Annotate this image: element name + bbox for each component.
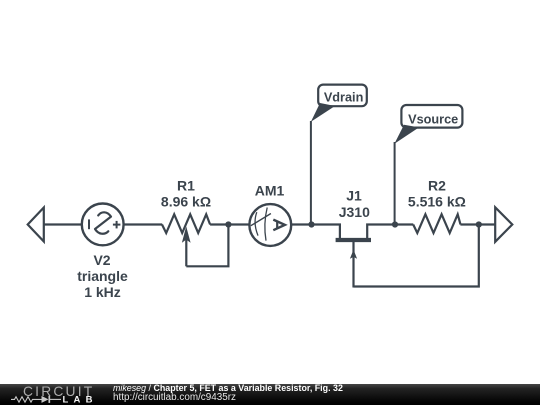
svg-text:V2: V2	[93, 252, 110, 268]
svg-text:AM1: AM1	[255, 183, 285, 199]
ammeter AM1	[249, 204, 291, 246]
flag Vsource	[394, 105, 462, 144]
wire Vdrain flag lead	[310, 121, 312, 225]
wire R2 to node	[460, 223, 495, 225]
svg-text:triangle: triangle	[77, 268, 128, 284]
wire Vsource node to R2	[395, 223, 413, 225]
svg-text:R1: R1	[177, 178, 195, 194]
svg-text:5.516 kΩ: 5.516 kΩ	[408, 194, 466, 210]
svg-text:Vdrain: Vdrain	[324, 90, 363, 104]
footer url	[113, 393, 236, 403]
wire Vsource flag lead	[394, 142, 396, 225]
transistor J1 source lead	[367, 225, 395, 239]
node Vdrain	[308, 221, 314, 227]
wire R1 to AM1	[210, 223, 311, 225]
transistor J1 gate arrow	[350, 242, 357, 288]
wire R1 wiper feedback	[186, 225, 228, 267]
resistor R2	[413, 214, 460, 233]
svg-text:R2: R2	[428, 178, 446, 194]
svg-text:J310: J310	[339, 204, 370, 220]
node junction (wiper)	[225, 221, 231, 227]
wire V2 to R1	[124, 223, 163, 225]
logo schematic glyph	[11, 396, 61, 403]
transistor J1 (JFET) drain lead	[312, 225, 340, 239]
potentiometer R1	[162, 214, 210, 266]
port P1 (left)	[28, 208, 44, 242]
node Vsource	[392, 221, 398, 227]
svg-text:1 kHz: 1 kHz	[84, 284, 121, 300]
footer title text	[113, 384, 343, 393]
transistor J1 channel bar	[336, 238, 371, 242]
flag Vdrain	[311, 85, 367, 122]
port P2 (right)	[495, 207, 512, 242]
CircuitLab logo	[0, 384, 110, 405]
node junction (gate feedback)	[476, 221, 482, 227]
svg-text:J1: J1	[346, 188, 362, 204]
svg-text:8.96 kΩ: 8.96 kΩ	[161, 194, 211, 210]
wire gate feedback	[354, 225, 479, 287]
footer bar	[0, 384, 540, 405]
svg-text:LAB: LAB	[63, 395, 98, 405]
svg-text:Vsource: Vsource	[408, 112, 458, 126]
wire P1 to V2	[44, 223, 82, 225]
voltage source V2	[82, 204, 124, 246]
